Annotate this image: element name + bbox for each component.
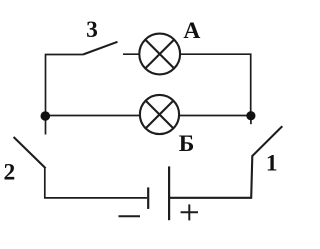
svg-text:2: 2 — [4, 159, 16, 185]
svg-text:А: А — [183, 18, 200, 44]
svg-text:Б: Б — [179, 131, 195, 157]
svg-text:3: 3 — [86, 17, 98, 43]
svg-text:1: 1 — [266, 151, 278, 177]
